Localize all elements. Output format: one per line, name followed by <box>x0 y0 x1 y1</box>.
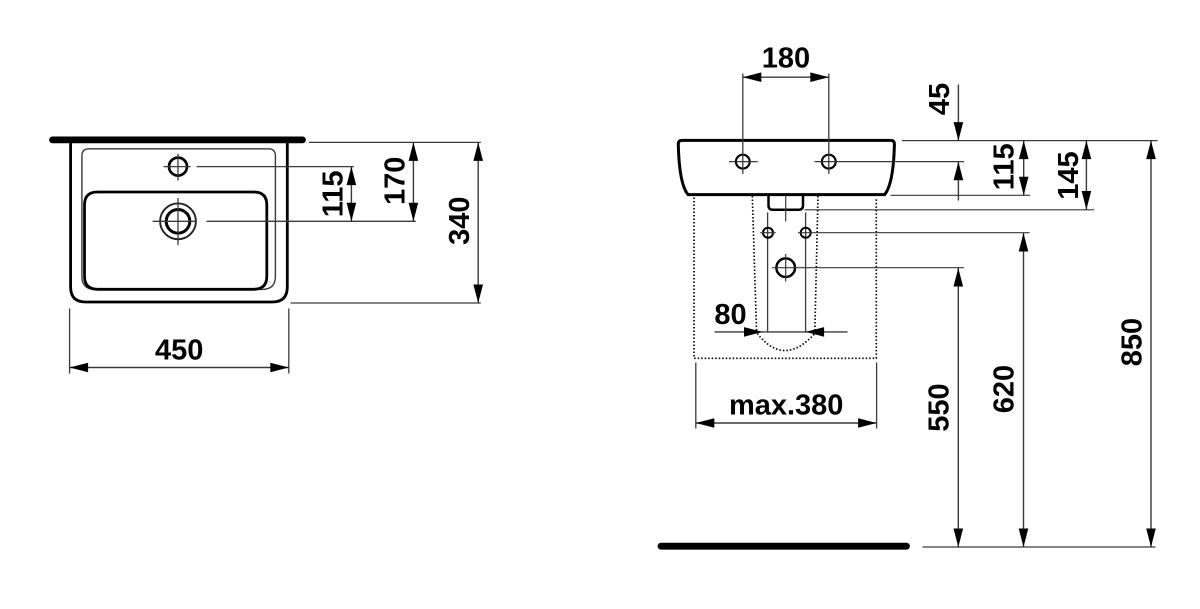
basin body outline <box>678 140 894 194</box>
drain horizontal crosshair + leader to 170 dim <box>153 220 197 222</box>
dimension 550 (floor to siphon hole) <box>923 268 963 547</box>
basin deck inner rim (thin) <box>82 149 276 290</box>
dimension max.380 <box>696 363 877 429</box>
siphon hole (large) <box>776 258 795 277</box>
wall/back edge thick bar <box>53 136 303 143</box>
drain pipe line right <box>805 213 807 332</box>
svg-text:max.380: max.380 <box>729 389 844 421</box>
bowl outline (thick) <box>85 192 267 289</box>
svg-text:170: 170 <box>379 157 411 205</box>
leader from siphon hole to 550 dim <box>772 267 964 269</box>
drain pipe line left <box>767 213 769 332</box>
bottom extension line for 340 dim <box>291 302 481 304</box>
svg-text:450: 450 <box>155 335 203 367</box>
dashed installation zone rectangle <box>694 198 876 359</box>
overflow bracket below basin <box>769 196 804 210</box>
top extension line (basin top to 850 dim) <box>902 140 1158 142</box>
dimension 115 (tap to drain) <box>317 167 356 222</box>
leader from right fixing hole to 620 dim <box>798 232 1030 234</box>
top extension line for 170/340 dims <box>309 141 481 143</box>
svg-text:45: 45 <box>924 83 956 115</box>
bottom extension line (basin bottom to 115 dim) <box>891 194 1031 196</box>
dashed semi-pedestal right side <box>815 196 818 333</box>
dashed semi-pedestal bottom arc <box>757 334 815 351</box>
dimension 45 (top edge to holes) <box>924 83 963 201</box>
bracket centre line <box>785 196 787 222</box>
dimension 340 (overall depth) <box>444 142 483 303</box>
tap hole horizontal crosshair + leader to 115 dim <box>164 166 191 168</box>
drain vertical crosshair <box>177 198 179 245</box>
dimension 145 (top to bracket) <box>1053 141 1091 210</box>
basin outer outline <box>71 143 288 303</box>
fixing hole right (small) <box>801 228 811 238</box>
dimension 850 (floor to basin top) <box>1117 141 1156 547</box>
fixing hole left (small) <box>763 228 773 238</box>
drain inner circle <box>166 210 190 234</box>
dimension 115 (basin height at right) <box>989 141 1029 196</box>
leader from right hole to 45 dim <box>815 161 965 163</box>
svg-text:340: 340 <box>444 197 476 245</box>
dimension 170 (top to drain) <box>379 142 418 221</box>
svg-text:80: 80 <box>714 299 746 331</box>
dimension 80 (pipe spacing) <box>714 299 847 337</box>
dimension 620 (floor to fixing holes) <box>989 233 1029 547</box>
tap hole vertical crosshair <box>177 154 179 181</box>
dimension 450 (overall width) <box>70 309 289 374</box>
floor line (thick) <box>661 543 907 550</box>
dashed semi-pedestal left side <box>752 196 756 333</box>
floor extension line (thin) <box>923 546 1156 548</box>
svg-text:620: 620 <box>989 365 1021 413</box>
svg-text:550: 550 <box>923 383 955 431</box>
svg-text:115: 115 <box>317 171 349 218</box>
svg-text:115: 115 <box>989 143 1021 190</box>
svg-text:180: 180 <box>762 43 810 75</box>
mounting hole right <box>822 155 836 169</box>
svg-text:145: 145 <box>1053 151 1085 199</box>
svg-text:850: 850 <box>1117 318 1149 366</box>
mounting hole left <box>736 155 750 169</box>
bracket leader to 145 dim <box>805 209 1095 211</box>
dimension 180 (hole spacing) <box>743 43 829 174</box>
drain outer circle <box>160 203 196 239</box>
tap hole <box>169 158 187 176</box>
